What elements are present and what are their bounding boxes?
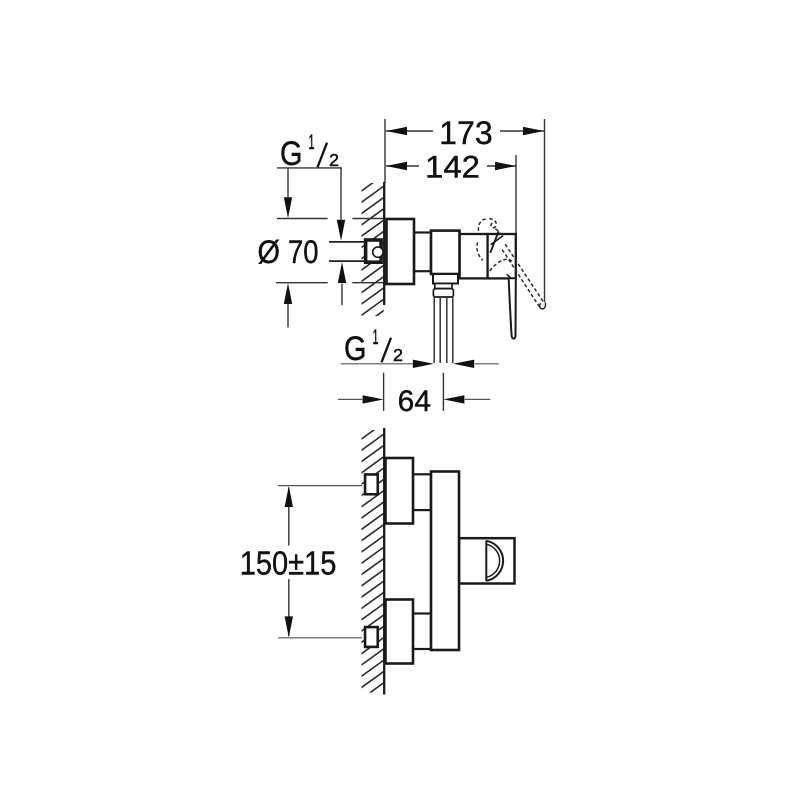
svg-text:G: G bbox=[280, 135, 303, 173]
svg-text:70: 70 bbox=[288, 234, 319, 270]
svg-text:64: 64 bbox=[398, 385, 431, 418]
svg-text:Ø: Ø bbox=[258, 234, 281, 270]
svg-text:2: 2 bbox=[393, 345, 403, 365]
svg-text:142: 142 bbox=[425, 148, 480, 184]
svg-text:150±15: 150±15 bbox=[240, 545, 337, 582]
svg-text:173: 173 bbox=[439, 115, 493, 151]
svg-text:1: 1 bbox=[309, 131, 315, 154]
svg-text:2: 2 bbox=[329, 150, 339, 170]
svg-text:1: 1 bbox=[373, 326, 379, 349]
svg-text:G: G bbox=[344, 330, 367, 368]
